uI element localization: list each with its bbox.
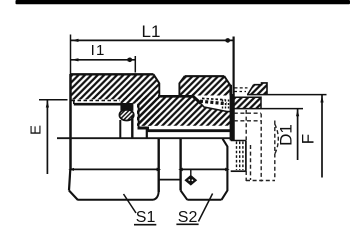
svg-text:L1: L1: [142, 22, 161, 41]
svg-text:F: F: [299, 134, 318, 144]
svg-text:S1: S1: [136, 209, 156, 226]
svg-text:S2: S2: [178, 209, 198, 226]
svg-text:I1: I1: [91, 42, 106, 59]
svg-text:D1: D1: [276, 124, 295, 146]
svg-text:E: E: [28, 125, 45, 135]
